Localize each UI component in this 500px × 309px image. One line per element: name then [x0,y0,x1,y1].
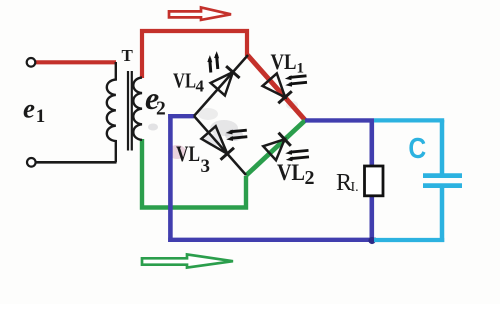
svg-text:2: 2 [156,99,166,120]
svg-text:3: 3 [201,156,211,177]
svg-text:VL: VL [271,49,297,74]
svg-text:1: 1 [297,61,305,77]
svg-text:2: 2 [305,167,315,189]
svg-text:VL: VL [173,69,196,93]
svg-text:C: C [408,132,426,164]
svg-text:4: 4 [196,77,205,96]
svg-text:VL: VL [277,160,305,185]
svg-text:1: 1 [36,106,46,127]
svg-text:T: T [122,46,134,65]
svg-text:VL: VL [176,141,200,166]
svg-text:I.: I. [351,180,359,195]
svg-text:e: e [23,94,35,124]
